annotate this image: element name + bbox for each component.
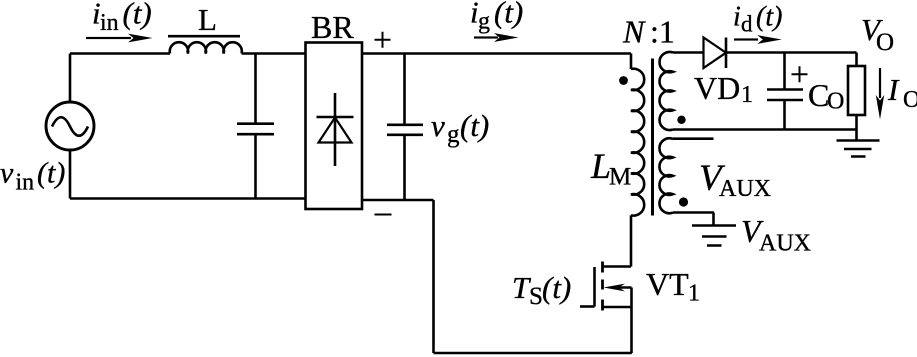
capacitor C1 branch wire lower <box>254 135 257 198</box>
VT1 drain lead <box>603 265 632 268</box>
wire aux top stub <box>673 137 714 140</box>
wire diode to output corner <box>726 51 857 54</box>
svg-text::1: :1 <box>650 14 675 50</box>
dot secondary <box>677 116 685 124</box>
svg-text:(t): (t) <box>460 108 489 143</box>
plus sign node <box>375 32 391 48</box>
inductor L bar <box>168 35 240 38</box>
wire left vertical to source <box>69 54 72 104</box>
wire aux bottom <box>673 211 714 214</box>
transformer primary winding LM <box>631 69 644 216</box>
svg-text:(t): (t) <box>756 2 782 33</box>
svg-text:N: N <box>622 14 646 50</box>
svg-text:d: d <box>741 12 753 37</box>
capacitor CO plates <box>767 90 803 101</box>
diode VD1 <box>704 38 727 69</box>
svg-text:O: O <box>876 29 894 56</box>
VT1 channel segments <box>601 262 604 311</box>
minus sign node <box>375 214 392 216</box>
wire source bottom <box>69 150 72 199</box>
arrow i_g <box>474 36 498 38</box>
capacitor vg branch lower <box>403 136 406 200</box>
VT1 body lead with arrow <box>612 286 632 289</box>
wire output bottom rail <box>673 128 857 131</box>
wire corner vertical <box>432 200 435 353</box>
wire inductor to node A <box>242 52 306 55</box>
transistor Q1 MOSFET VT1 <box>580 262 632 354</box>
capacitor CO branch upper <box>783 53 786 90</box>
BR diode <box>334 93 337 166</box>
svg-text:1: 1 <box>688 281 700 307</box>
capacitor C1 plates <box>237 124 274 135</box>
svg-text:BR: BR <box>311 9 354 45</box>
svg-text:M: M <box>609 164 631 191</box>
capacitor C1 branch wire upper <box>254 54 257 123</box>
wire transformer primary top <box>630 54 633 70</box>
arrowhead body lead MOSFET <box>604 284 626 292</box>
svg-text:AUX: AUX <box>759 231 811 257</box>
svg-text:g: g <box>447 121 460 148</box>
dot aux <box>679 197 688 206</box>
capacitor vg branch upper <box>403 54 406 125</box>
svg-text:(t): (t) <box>37 157 65 190</box>
arrow I_O <box>879 68 881 98</box>
svg-text:in: in <box>16 170 35 196</box>
VT1 source lead <box>603 306 632 309</box>
svg-text:AUX: AUX <box>719 176 771 202</box>
VT1 gate lead <box>580 305 595 308</box>
resistor load RO <box>855 53 858 67</box>
svg-text:g: g <box>478 9 490 35</box>
plus sign CO <box>792 66 808 82</box>
svg-text:O: O <box>827 89 844 115</box>
capacitor vg plates <box>387 125 423 135</box>
arrow i_d <box>734 38 758 40</box>
wire bottom-left rail <box>70 197 306 200</box>
svg-text:O: O <box>903 87 917 113</box>
transformer secondary winding <box>660 52 673 130</box>
VT1 gate bar <box>593 267 596 307</box>
wire bottom rail to MOSFET source <box>434 352 632 355</box>
capacitor CO branch lower <box>783 101 786 130</box>
wire VT1 source vertical <box>630 288 633 354</box>
wire primary bottom to drain <box>630 215 633 266</box>
svg-text:v: v <box>431 108 445 143</box>
svg-text:i: i <box>733 2 741 33</box>
svg-text:VD: VD <box>694 70 740 106</box>
transformer core <box>651 59 654 216</box>
svg-text:(t): (t) <box>123 0 152 31</box>
wire secondary top to diode <box>673 51 704 54</box>
svg-text:1: 1 <box>741 82 753 108</box>
svg-text:(t): (t) <box>494 0 523 30</box>
inductor L <box>170 42 242 53</box>
bridge rectifier BR box <box>306 43 363 210</box>
svg-text:v: v <box>0 157 14 190</box>
dot primary <box>619 76 628 85</box>
svg-text:L: L <box>198 2 217 37</box>
wire top rail BR to transformer <box>362 52 631 55</box>
svg-text:VT: VT <box>646 266 689 302</box>
AC source V_in <box>46 102 94 150</box>
wire top-left from source to inductor <box>70 52 170 55</box>
wire bottom rail BR to corner <box>362 199 434 202</box>
svg-text:(t): (t) <box>542 270 571 305</box>
ground output <box>855 130 858 141</box>
transformer aux winding <box>659 138 673 213</box>
svg-text:S: S <box>529 283 543 310</box>
svg-text:in: in <box>100 10 119 36</box>
ground aux <box>712 213 715 225</box>
svg-text:I: I <box>887 72 900 107</box>
svg-text:L: L <box>590 146 611 186</box>
arrow i_in <box>86 37 131 39</box>
